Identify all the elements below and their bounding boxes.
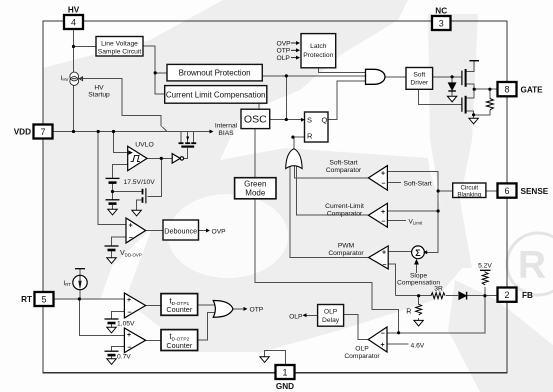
svg-text:R: R	[406, 307, 411, 316]
svg-text:Delay: Delay	[322, 317, 340, 324]
svg-text:Counter: Counter	[166, 305, 193, 314]
svg-text:7: 7	[40, 127, 45, 137]
svg-text:OLP: OLP	[289, 313, 303, 320]
svg-text:Internal: Internal	[215, 123, 238, 130]
svg-text:4.6V: 4.6V	[411, 342, 425, 349]
svg-text:Comparator: Comparator	[328, 250, 364, 257]
svg-text:Sample Circuit: Sample Circuit	[98, 49, 142, 56]
svg-text:Soft-Start: Soft-Start	[329, 160, 357, 167]
svg-text:Protection: Protection	[303, 52, 333, 59]
svg-text:−: −	[127, 309, 131, 316]
svg-text:Brownout Protection: Brownout Protection	[179, 69, 251, 78]
svg-text:Q: Q	[322, 116, 328, 125]
svg-text:HV: HV	[68, 6, 80, 15]
svg-text:3R: 3R	[434, 286, 443, 293]
svg-text:FB: FB	[522, 291, 533, 300]
svg-text:+: +	[380, 342, 384, 349]
svg-text:−: −	[381, 331, 385, 338]
svg-text:+: +	[127, 332, 131, 339]
svg-text:Latch: Latch	[310, 43, 327, 50]
svg-text:Green: Green	[244, 180, 266, 189]
svg-text:6: 6	[504, 186, 509, 196]
svg-text:−: −	[381, 180, 385, 187]
svg-text:0.7V: 0.7V	[117, 354, 131, 361]
svg-text:−: −	[382, 262, 386, 269]
svg-text:Line Voltage: Line Voltage	[101, 41, 138, 48]
svg-text:OLP: OLP	[355, 346, 369, 353]
svg-text:RT: RT	[21, 295, 32, 304]
svg-text:Debounce: Debounce	[164, 227, 197, 236]
svg-text:1: 1	[282, 367, 287, 377]
svg-text:5: 5	[41, 294, 46, 304]
svg-text:Mode: Mode	[245, 189, 266, 198]
svg-text:OLP: OLP	[324, 309, 338, 316]
svg-text:Comparator: Comparator	[326, 167, 362, 174]
svg-text:8: 8	[504, 85, 509, 95]
svg-text:SENSE: SENSE	[521, 187, 549, 196]
svg-text:Driver: Driver	[410, 80, 429, 87]
svg-text:−: −	[129, 235, 133, 242]
svg-text:Slope: Slope	[410, 273, 427, 280]
svg-text:Comparator: Comparator	[327, 211, 363, 218]
svg-text:Comparator: Comparator	[344, 353, 380, 360]
svg-text:−: −	[381, 218, 385, 225]
svg-text:Counter: Counter	[166, 341, 193, 350]
svg-text:Soft-Start: Soft-Start	[404, 180, 432, 187]
svg-text:GND: GND	[276, 382, 294, 391]
svg-text:Soft: Soft	[413, 72, 425, 79]
svg-text:OTP: OTP	[277, 48, 291, 55]
svg-text:VDD: VDD	[14, 128, 31, 137]
svg-text:BIAS: BIAS	[218, 130, 234, 137]
svg-text:5.2V: 5.2V	[478, 263, 492, 270]
svg-text:OVP: OVP	[212, 229, 227, 236]
svg-text:HV: HV	[94, 85, 104, 92]
svg-text:Σ: Σ	[415, 248, 421, 258]
svg-text:−: −	[127, 344, 131, 351]
svg-text:PWM: PWM	[338, 243, 355, 250]
svg-text:S: S	[307, 116, 312, 125]
svg-text:+: +	[381, 209, 385, 216]
svg-text:17.5V/10V: 17.5V/10V	[124, 179, 156, 186]
svg-text:4: 4	[71, 18, 76, 28]
svg-text:OSC: OSC	[244, 114, 267, 126]
svg-text:+: +	[128, 222, 132, 229]
svg-text:Startup: Startup	[88, 92, 110, 99]
svg-text:+: +	[381, 171, 385, 178]
svg-text:OVP: OVP	[277, 40, 292, 47]
svg-text:R: R	[307, 132, 313, 141]
svg-text:+: +	[127, 297, 131, 304]
svg-text:Current Limit Compensation: Current Limit Compensation	[166, 91, 266, 100]
svg-text:OLP: OLP	[277, 55, 291, 62]
svg-text:Circuit: Circuit	[461, 185, 479, 192]
svg-text:3: 3	[439, 19, 444, 29]
svg-text:+: +	[382, 250, 386, 257]
svg-text:VDD-OVP: VDD-OVP	[120, 250, 142, 257]
svg-text:Current-Limit: Current-Limit	[325, 203, 364, 210]
svg-text:1.05V: 1.05V	[117, 321, 135, 328]
svg-text:OTP: OTP	[250, 307, 264, 314]
svg-text:Blanking: Blanking	[457, 192, 481, 199]
svg-text:NC: NC	[435, 7, 447, 16]
svg-text:R: R	[518, 244, 546, 287]
svg-text:UVLO: UVLO	[135, 141, 154, 148]
svg-text:GATE: GATE	[521, 85, 544, 94]
svg-text:2: 2	[504, 290, 509, 300]
